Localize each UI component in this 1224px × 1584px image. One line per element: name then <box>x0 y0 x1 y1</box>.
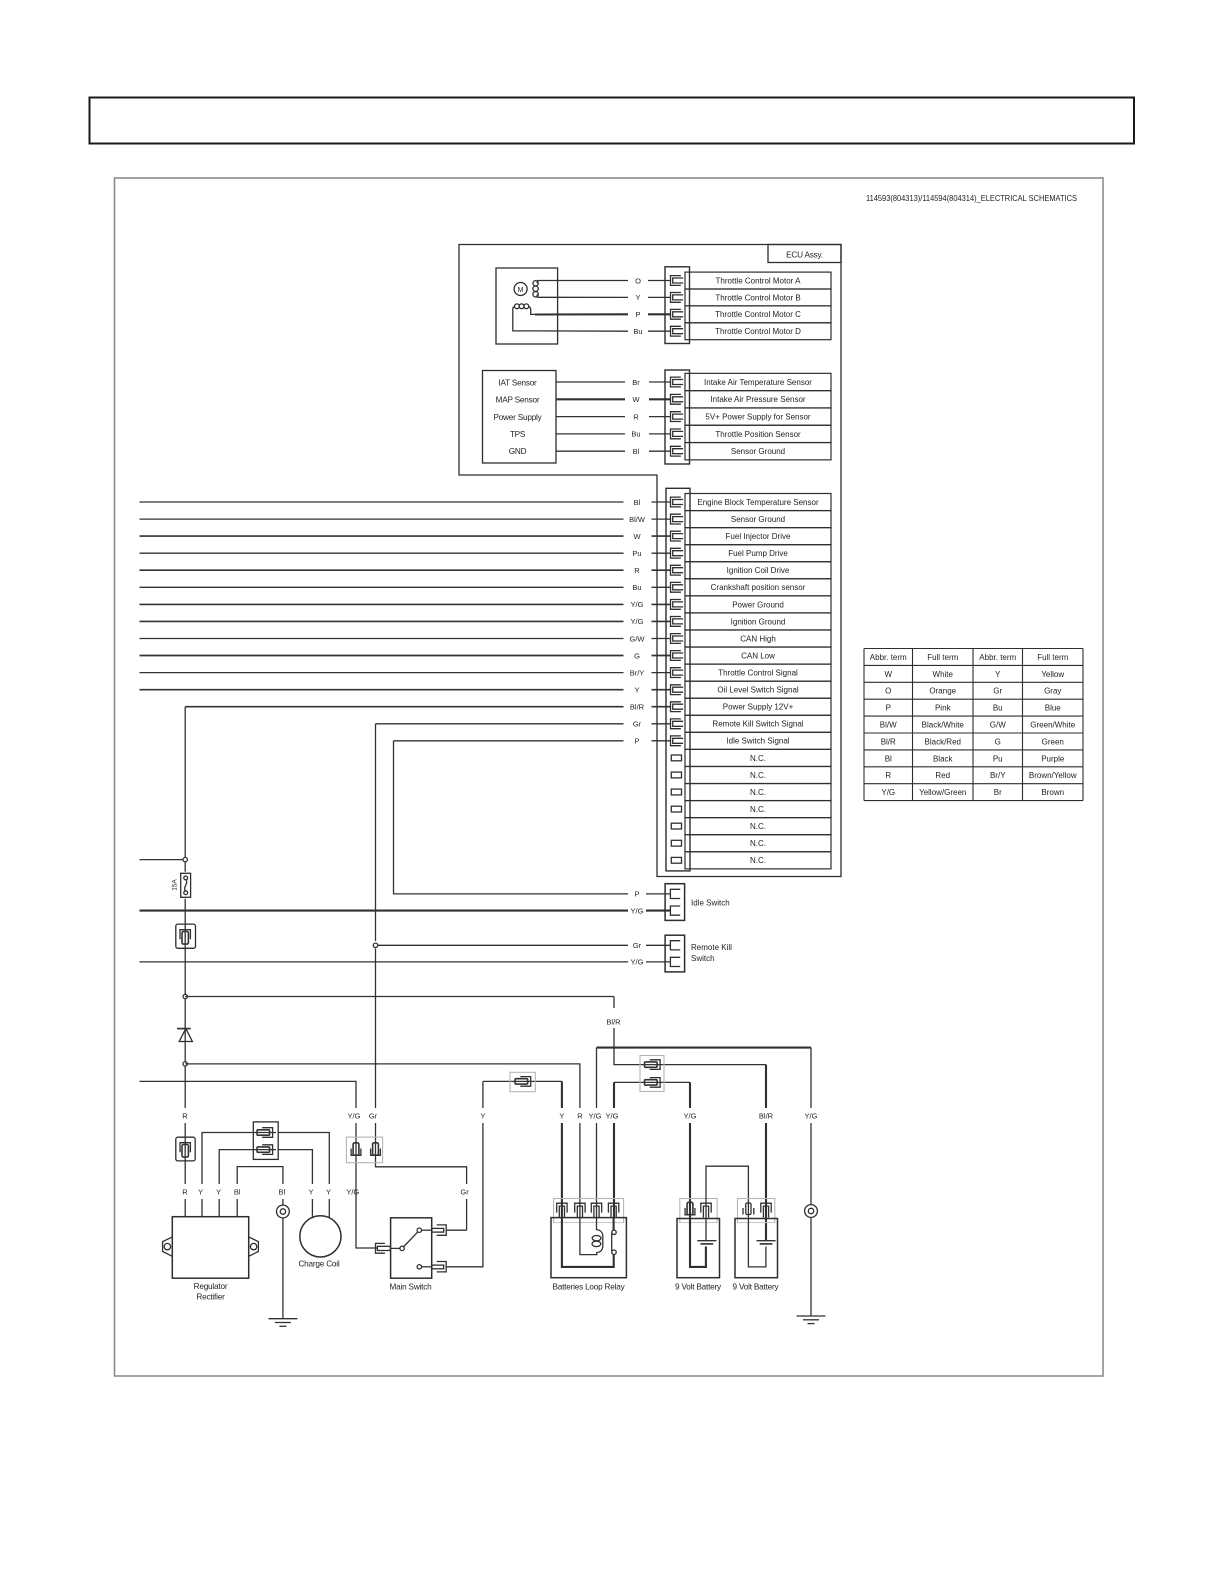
svg-text:O: O <box>635 276 641 285</box>
ECU pin label box: N.C. (row 16) <box>685 749 831 766</box>
svg-text:Bu: Bu <box>631 430 640 439</box>
wire Bl ECU row Engine Block Temperature Sensor <box>140 501 624 503</box>
svg-text:MAP Sensor: MAP Sensor <box>496 396 540 405</box>
ECU pin label box: Throttle Control Motor B <box>685 289 831 306</box>
svg-text:W: W <box>632 395 640 404</box>
color code table grid <box>864 648 1083 650</box>
svg-text:Remote Kill Switch Signal: Remote Kill Switch Signal <box>712 720 803 729</box>
battery 2 pin housing <box>738 1199 775 1223</box>
ECU pin label box: Ignition Ground (row 8) <box>685 613 831 630</box>
ECU pin label box: CAN High (row 9) <box>685 630 831 647</box>
relay contact circles <box>612 1230 616 1234</box>
connector J3 pin 1 <box>671 497 684 507</box>
ECU pin label box: Sensor Ground <box>685 443 831 460</box>
svg-text:Oil Level Switch Signal: Oil Level Switch Signal <box>717 686 799 695</box>
svg-text:P: P <box>634 890 639 899</box>
node A junction <box>183 857 187 861</box>
ECU pin label box: 5V+ Power Supply for Sensor <box>685 408 831 425</box>
main switch bottom right pin <box>437 1262 447 1272</box>
wire Bl/W ECU row Sensor Ground <box>140 518 624 520</box>
svg-text:Y/G: Y/G <box>589 1111 602 1120</box>
main switch left pin <box>376 1243 385 1253</box>
wire G ECU row CAN Low <box>140 655 624 657</box>
wire Br/Y ECU row Throttle Control Signal <box>140 672 624 674</box>
wire Y/G relay pin3 <box>596 1048 598 1218</box>
svg-text:Y/G: Y/G <box>348 1111 361 1120</box>
svg-text:Idle Switch: Idle Switch <box>691 899 730 908</box>
sensor block box (IAT/MAP/TPS) <box>483 371 557 464</box>
motor phase coil AB <box>533 281 538 286</box>
ECU pin label box: Throttle Control Motor A <box>685 272 831 289</box>
regulator right mounting ear <box>249 1237 259 1256</box>
svg-text:5V+ Power Supply for Sensor: 5V+ Power Supply for Sensor <box>705 412 811 421</box>
svg-text:114593(804313)/114594(804314)_: 114593(804313)/114594(804314)_ELECTRICAL… <box>866 194 1077 203</box>
svg-text:Charge Coil: Charge Coil <box>298 1260 339 1269</box>
main switch common contact <box>400 1246 404 1250</box>
connector J3 pin 18 <box>671 789 681 795</box>
svg-text:R: R <box>634 566 640 575</box>
throttle control motor box <box>496 268 558 344</box>
svg-text:Blue: Blue <box>1045 704 1062 713</box>
svg-text:Gr: Gr <box>369 1111 378 1120</box>
svg-text:Purple: Purple <box>1041 754 1065 763</box>
svg-text:Gr: Gr <box>633 720 642 729</box>
connector J3 pin 12 <box>671 685 684 695</box>
svg-text:Throttle Control Motor C: Throttle Control Motor C <box>715 310 801 319</box>
svg-text:Red: Red <box>935 771 950 780</box>
ECU pin label box: Fuel Pump Drive (row 4) <box>685 545 831 562</box>
svg-text:Throttle Control Motor B: Throttle Control Motor B <box>715 293 800 302</box>
relay pin 3 <box>591 1203 601 1217</box>
svg-text:Main Switch: Main Switch <box>390 1283 433 1292</box>
svg-text:Gr: Gr <box>993 687 1002 696</box>
ECU pin label box: Oil Level Switch Signal (row 12) <box>685 681 831 698</box>
svg-text:N.C.: N.C. <box>750 754 766 763</box>
svg-text:Engine Block Temperature Senso: Engine Block Temperature Sensor <box>697 498 819 507</box>
node D junction Gr <box>373 943 377 947</box>
connector pin 5V+ Power Supply for Sensor <box>671 412 684 422</box>
svg-text:Bl: Bl <box>634 498 641 507</box>
wire Y to main switch <box>446 1081 562 1266</box>
connector pin Intake Air Temperature Sensor <box>671 377 684 387</box>
ECU pin label box: Throttle Control Signal (row 11) <box>685 664 831 681</box>
svg-text:Y: Y <box>308 1187 313 1196</box>
ECU connector strip J1 <box>665 267 690 344</box>
connector J3 pin 11 <box>671 668 684 678</box>
svg-text:Abbr. term: Abbr. term <box>870 653 907 662</box>
svg-text:Y/G: Y/G <box>805 1111 818 1120</box>
relay pin 2 <box>575 1203 585 1217</box>
battery 1 box <box>677 1219 720 1278</box>
svg-text:P: P <box>886 704 891 713</box>
connector J3 pin 20 <box>671 823 681 829</box>
fuse F2 in holder <box>176 1137 195 1161</box>
svg-text:N.C.: N.C. <box>750 822 766 831</box>
svg-text:Bu: Bu <box>993 704 1003 713</box>
svg-text:15A: 15A <box>172 879 179 891</box>
svg-text:P: P <box>635 310 640 319</box>
svg-text:Orange: Orange <box>929 687 956 696</box>
svg-text:Full term: Full term <box>1037 653 1068 662</box>
motor coil CD to P wire <box>529 307 536 315</box>
idle switch connector <box>665 884 685 921</box>
svg-text:Yellow: Yellow <box>1041 670 1064 679</box>
connector C1 on Bl/R wire <box>176 924 196 948</box>
twin fuse holder F3 F4 <box>346 1137 382 1163</box>
main switch blade <box>404 1232 418 1246</box>
wire Bu ECU row Crankshaft position sensor <box>140 586 624 588</box>
wire Y/G relay pin4 <box>614 1081 690 1083</box>
svg-text:Sensor Ground: Sensor Ground <box>731 447 785 456</box>
ECU pin label box: Throttle Control Motor C <box>685 306 831 323</box>
svg-text:Abbr. term: Abbr. term <box>979 653 1016 662</box>
connector C3 inline <box>510 1072 535 1091</box>
connector pin Throttle Control Motor D <box>671 326 684 336</box>
ECU pin label box: N.C. (row 21) <box>685 835 831 852</box>
ring terminal Bl <box>277 1205 290 1218</box>
svg-text:Y: Y <box>995 670 1001 679</box>
connector pin Throttle Control Motor B <box>671 293 684 303</box>
svg-text:Y: Y <box>480 1111 485 1120</box>
svg-text:Brown/Yellow: Brown/Yellow <box>1029 771 1077 780</box>
svg-text:Power Supply 12V+: Power Supply 12V+ <box>723 703 794 712</box>
svg-text:R: R <box>885 771 891 780</box>
connector J3 pin 3 <box>671 531 684 541</box>
svg-text:N.C.: N.C. <box>750 788 766 797</box>
wire Bl/R ECU row Power Supply 12V+ <box>185 706 623 708</box>
svg-text:Br: Br <box>632 378 640 387</box>
connector J3 pin 15 <box>671 736 684 746</box>
relay pin 4 <box>608 1203 618 1217</box>
connector J3 pin 14 <box>671 719 684 729</box>
svg-text:Throttle Position Sensor: Throttle Position Sensor <box>715 430 801 439</box>
connector J3 pin 7 <box>671 600 684 610</box>
document header box <box>90 98 1135 144</box>
svg-text:Bl: Bl <box>633 447 640 456</box>
battery 1 pin 2 <box>701 1203 711 1217</box>
svg-text:Bl/R: Bl/R <box>630 703 645 712</box>
connector J3 pin 21 <box>671 840 681 846</box>
relay pin housing <box>554 1199 624 1223</box>
ECU pin label box: Intake Air Temperature Sensor <box>685 373 831 390</box>
wire R sensor row <box>556 416 625 418</box>
wire Gr to remote kill <box>376 944 629 946</box>
connector J3 pin 19 <box>671 806 681 812</box>
wire P to idle switch (routed) <box>394 741 629 894</box>
svg-text:Y/G: Y/G <box>881 788 895 797</box>
svg-text:Gr: Gr <box>633 941 642 950</box>
svg-text:Remote Kill: Remote Kill <box>691 943 732 952</box>
relay pin 1 <box>557 1203 567 1217</box>
motor coil CD frame wire <box>513 307 535 331</box>
wire Bu sensor row <box>556 433 625 435</box>
ECU pin label box: Remote Kill Switch Signal (row 14) <box>685 715 831 732</box>
wire P ECU row Idle Switch Signal <box>394 740 624 742</box>
svg-text:W: W <box>633 532 641 541</box>
connector pin Sensor Ground <box>671 446 684 456</box>
svg-text:Y/G: Y/G <box>631 906 644 915</box>
wire stub to node A <box>140 859 184 861</box>
battery 2 cell symbol <box>757 1240 776 1242</box>
connector pin Intake Air Pressure Sensor <box>671 394 684 404</box>
svg-text:Ignition Ground: Ignition Ground <box>731 617 786 626</box>
ECU pin label box: Fuel Injector Drive (row 3) <box>685 528 831 545</box>
svg-text:Y: Y <box>198 1187 203 1196</box>
connector J3 pin 9 <box>671 634 684 644</box>
battery 2 pin 2 <box>761 1203 771 1217</box>
svg-text:Black/Red: Black/Red <box>925 737 961 746</box>
svg-text:Pu: Pu <box>993 754 1003 763</box>
ECU pin label box: Throttle Position Sensor <box>685 425 831 442</box>
svg-text:R: R <box>182 1187 188 1196</box>
ECU connector strip J2 <box>665 370 690 464</box>
svg-text:Y: Y <box>326 1187 331 1196</box>
fuse F1 15A <box>181 873 191 897</box>
ECU pin label box: Engine Block Temperature Sensor (row 1) <box>685 494 831 511</box>
ECU pin label box: Ignition Coil Drive (row 5) <box>685 562 831 579</box>
main switch top right pin <box>437 1225 447 1235</box>
svg-text:Switch: Switch <box>691 954 715 963</box>
svg-text:TPS: TPS <box>510 430 526 439</box>
connector J3 pin 10 <box>671 651 684 661</box>
ground symbol G2 <box>797 1315 826 1317</box>
ring terminal Y/G <box>805 1205 818 1218</box>
connector J3 pin 16 <box>671 755 681 761</box>
svg-text:N.C.: N.C. <box>750 771 766 780</box>
diode D1 <box>177 1028 191 1030</box>
connector J3 pin 13 <box>671 702 684 712</box>
svg-text:Gr: Gr <box>460 1187 469 1196</box>
connector C2 two-pin inline <box>640 1056 664 1092</box>
svg-text:M: M <box>518 287 524 294</box>
relay internal contact wire <box>562 1218 614 1267</box>
svg-text:Bl: Bl <box>234 1187 241 1196</box>
ECU Assy. label box <box>768 245 841 263</box>
svg-text:G: G <box>634 651 640 660</box>
wire Pu ECU row Fuel Pump Drive <box>140 552 624 554</box>
wire W sensor row <box>556 398 625 400</box>
regulator left mounting ear <box>163 1237 173 1256</box>
svg-text:Bl: Bl <box>278 1187 285 1196</box>
regulator rectifier box <box>172 1217 248 1279</box>
main switch bottom contact <box>417 1265 421 1269</box>
svg-text:Black: Black <box>933 754 954 763</box>
ECU assembly outline <box>459 245 841 877</box>
svg-text:Yellow/Green: Yellow/Green <box>919 788 966 797</box>
wire G/W ECU row CAN High <box>140 638 624 640</box>
svg-text:CAN Low: CAN Low <box>741 651 775 660</box>
charge coil circle <box>300 1216 341 1257</box>
connector J3 pin 5 <box>671 565 684 575</box>
battery 2 box <box>735 1219 778 1278</box>
svg-text:Black/White: Black/White <box>922 721 965 730</box>
svg-text:Power Ground: Power Ground <box>732 600 784 609</box>
svg-text:R: R <box>182 1111 188 1120</box>
schematic border frame <box>115 178 1104 1376</box>
svg-text:Y: Y <box>634 686 639 695</box>
svg-text:Y/G: Y/G <box>346 1187 359 1196</box>
svg-text:Throttle Control Motor D: Throttle Control Motor D <box>715 327 801 336</box>
ground symbol G1 <box>268 1318 297 1320</box>
svg-text:Sensor Ground: Sensor Ground <box>731 515 785 524</box>
relay coil <box>580 1218 603 1255</box>
svg-text:Fuel Pump Drive: Fuel Pump Drive <box>728 549 788 558</box>
svg-text:Bl/R: Bl/R <box>759 1111 774 1120</box>
ECU pin label box: Power Ground (row 7) <box>685 596 831 613</box>
ECU pin label box: Crankshaft position sensor (row 6) <box>685 579 831 596</box>
svg-text:Bu: Bu <box>632 583 641 592</box>
svg-text:Y/G: Y/G <box>631 617 644 626</box>
wire Bl regulator pin4 <box>237 1167 283 1217</box>
svg-text:Bl/W: Bl/W <box>880 721 897 730</box>
svg-text:Intake Air Temperature Sensor: Intake Air Temperature Sensor <box>704 378 812 387</box>
ECU pin label box: N.C. (row 17) <box>685 767 831 784</box>
svg-text:O: O <box>885 687 891 696</box>
svg-text:Power Supply: Power Supply <box>493 413 542 422</box>
battery 1 pin housing <box>680 1199 717 1223</box>
wire Y/G main switch feed <box>140 1081 378 1248</box>
svg-text:Regulator: Regulator <box>194 1282 228 1291</box>
ECU connector strip J3 <box>666 488 690 871</box>
wire Y/G thick run to ground <box>597 1047 812 1049</box>
svg-text:Pu: Pu <box>632 549 641 558</box>
connector J3 pin 22 <box>671 857 681 863</box>
svg-text:N.C.: N.C. <box>750 856 766 865</box>
svg-text:Bl/W: Bl/W <box>629 515 646 524</box>
wire Y charge coil right <box>278 1133 329 1219</box>
wire Bl to ground <box>282 1218 284 1319</box>
svg-text:Br/Y: Br/Y <box>990 771 1006 780</box>
wire R run to relay <box>185 1064 580 1218</box>
svg-text:Br/Y: Br/Y <box>630 668 645 677</box>
svg-text:R: R <box>633 412 639 421</box>
svg-text:Y/G: Y/G <box>631 958 644 967</box>
svg-text:Y/G: Y/G <box>606 1111 619 1120</box>
wire Bu motor <box>535 330 628 332</box>
svg-text:Bl: Bl <box>885 754 892 763</box>
wire Y ECU row Oil Level Switch Signal <box>140 689 624 691</box>
svg-text:Throttle Control Signal: Throttle Control Signal <box>718 669 798 678</box>
wire R ECU row Ignition Coil Drive <box>140 569 624 571</box>
wire Y regulator pin2 <box>202 1133 276 1217</box>
ECU pin label box: Throttle Control Motor D <box>685 323 831 340</box>
svg-text:Ignition Coil Drive: Ignition Coil Drive <box>727 566 790 575</box>
remote kill switch connector <box>665 935 685 972</box>
svg-text:P: P <box>634 737 639 746</box>
svg-text:9 Volt Battery: 9 Volt Battery <box>675 1283 722 1292</box>
svg-text:Green/White: Green/White <box>1030 721 1075 730</box>
main switch box <box>391 1218 432 1278</box>
wire Y/G ECU row Ignition Ground <box>140 620 624 622</box>
wire Y/G battery1 <box>689 1082 691 1218</box>
svg-text:Throttle Control Motor A: Throttle Control Motor A <box>716 276 802 285</box>
wire Gr vertical drop <box>376 724 467 1230</box>
svg-text:Y: Y <box>216 1187 221 1196</box>
wire Y regulator pin3 <box>219 1150 276 1217</box>
svg-text:9 Volt Battery: 9 Volt Battery <box>733 1283 780 1292</box>
svg-text:Intake Air Pressure Sensor: Intake Air Pressure Sensor <box>710 395 805 404</box>
svg-text:G/W: G/W <box>990 721 1006 730</box>
ECU pin label box: Idle Switch Signal (row 15) <box>685 732 831 749</box>
wire Bl/R vertical drop <box>184 707 186 872</box>
connector J3 pin 8 <box>671 617 684 627</box>
ECU pin label box: Power Supply 12V+ (row 13) <box>685 698 831 715</box>
battery 2 internal wire <box>748 1218 766 1267</box>
node C junction <box>183 1062 187 1066</box>
svg-text:Y: Y <box>635 293 640 302</box>
svg-text:G: G <box>995 737 1001 746</box>
svg-text:Bu: Bu <box>633 327 642 336</box>
svg-text:Y/G: Y/G <box>631 600 644 609</box>
svg-text:CAN High: CAN High <box>740 634 776 643</box>
motor M symbol <box>514 283 527 296</box>
ECU pin label box: CAN Low (row 10) <box>685 647 831 664</box>
wire Y relay pin1 <box>561 1081 563 1217</box>
ECU pin label box: Sensor Ground (row 2) <box>685 511 831 528</box>
svg-text:Pink: Pink <box>935 704 952 713</box>
svg-text:N.C.: N.C. <box>750 839 766 848</box>
wire Y/G to remote kill <box>140 961 629 963</box>
wire Gr ECU row Remote Kill Switch Signal <box>376 723 624 725</box>
svg-text:IAT Sensor: IAT Sensor <box>498 379 537 388</box>
connector J3 pin 2 <box>671 514 684 524</box>
wire Y charge coil left <box>278 1150 312 1219</box>
wire Y motor <box>537 296 628 298</box>
svg-text:W: W <box>884 670 892 679</box>
motor phase coil CD <box>515 304 520 309</box>
connector J3 pin 6 <box>671 582 684 592</box>
svg-text:White: White <box>933 670 954 679</box>
main switch top contact <box>417 1228 421 1232</box>
wire Bl sensor row <box>556 450 625 452</box>
svg-text:Rectifier: Rectifier <box>196 1293 225 1302</box>
svg-text:G/W: G/W <box>630 634 646 643</box>
ECU pin label box: Intake Air Pressure Sensor <box>685 391 831 408</box>
connector J3 pin 17 <box>671 772 681 778</box>
svg-text:Brown: Brown <box>1041 788 1064 797</box>
battery 2 pin 1 <box>743 1203 754 1215</box>
relay box <box>551 1218 626 1278</box>
svg-text:Fuel Injector Drive: Fuel Injector Drive <box>726 532 791 541</box>
svg-text:N.C.: N.C. <box>750 805 766 814</box>
svg-text:GND: GND <box>509 447 527 456</box>
svg-text:Batteries Loop Relay: Batteries Loop Relay <box>552 1283 625 1292</box>
svg-text:Bl/R: Bl/R <box>881 737 896 746</box>
wire W ECU row Fuel Injector Drive <box>140 535 624 537</box>
wire Bl/R run to batteries <box>185 997 766 1065</box>
svg-text:Br: Br <box>994 788 1002 797</box>
svg-text:Y/G: Y/G <box>684 1111 697 1120</box>
ECU pin label box: N.C. (row 19) <box>685 801 831 818</box>
battery series link <box>706 1166 748 1241</box>
connector pin Throttle Control Motor A <box>671 276 684 286</box>
svg-text:R: R <box>577 1111 583 1120</box>
battery 1 pin 1 <box>685 1202 695 1215</box>
svg-text:Full term: Full term <box>927 653 958 662</box>
connector C4 two-pin <box>253 1122 278 1160</box>
svg-text:Gray: Gray <box>1044 687 1061 696</box>
connector J3 pin 4 <box>671 548 684 558</box>
wire P motor <box>535 313 628 315</box>
battery 1 internal wire <box>690 1218 706 1267</box>
svg-text:Idle Switch Signal: Idle Switch Signal <box>726 737 789 746</box>
connector pin Throttle Position Sensor <box>671 429 684 439</box>
svg-text:Green: Green <box>1042 737 1064 746</box>
ECU pin label box: N.C. (row 20) <box>685 818 831 835</box>
wire Y/G to idle switch <box>140 910 629 912</box>
wire Y/G ECU row Power Ground <box>140 603 624 605</box>
ECU pin label box: N.C. (row 18) <box>685 784 831 801</box>
